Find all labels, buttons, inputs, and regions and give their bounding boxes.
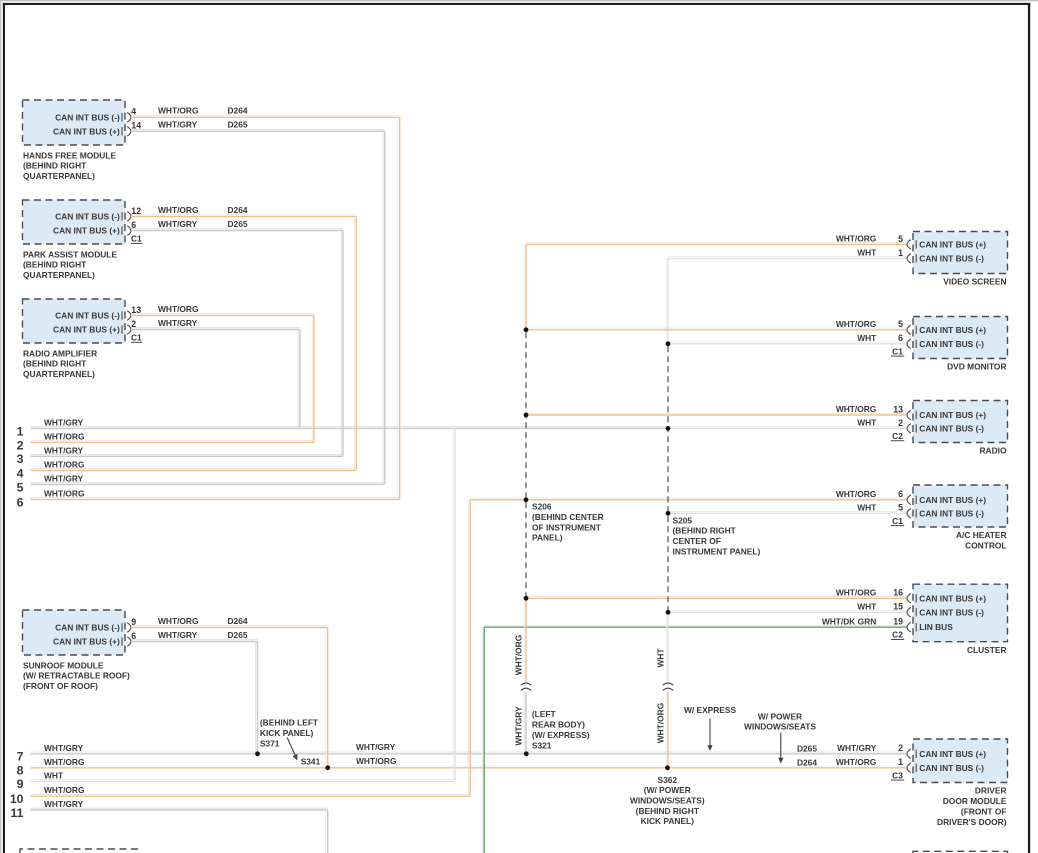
- partial module box bottom-right (cut off): [913, 851, 1008, 853]
- WHT/ORG vertical from a/c wire down to wire 10: [468, 500, 470, 796]
- svg-text:S371: S371: [260, 739, 280, 749]
- svg-text:CAN INT BUS (-): CAN INT BUS (-): [55, 211, 120, 221]
- a/c heater control WHT wire from splice S205: [668, 512, 907, 514]
- junction radio WHT/ORG tap: [524, 413, 529, 418]
- svg-text:WHT/ORG: WHT/ORG: [44, 459, 84, 469]
- svg-text:6: 6: [17, 495, 24, 509]
- svg-text:11: 11: [11, 806, 24, 820]
- video screen WHT wire: [668, 257, 907, 259]
- svg-text:WHT/ORG: WHT/ORG: [356, 756, 396, 766]
- hands free D264 vertical down to wire 6: [398, 117, 400, 499]
- svg-text:1: 1: [17, 424, 24, 438]
- junction cluster WHT tap: [666, 610, 671, 615]
- svg-text:CAN INT BUS (-): CAN INT BUS (-): [919, 339, 984, 349]
- svg-text:WHT/GRY: WHT/GRY: [837, 743, 877, 753]
- bus WHT segment cluster-to-connector: [666, 612, 668, 681]
- dvd monitor WHT wire: [668, 342, 907, 344]
- svg-text:C3: C3: [892, 770, 903, 780]
- svg-text:(W/ POWER: (W/ POWER: [644, 785, 691, 795]
- svg-text:CAN INT BUS (+): CAN INT BUS (+): [919, 325, 986, 335]
- svg-text:(BEHIND RIGHT: (BEHIND RIGHT: [23, 260, 87, 270]
- svg-text:(BEHIND RIGHT: (BEHIND RIGHT: [636, 806, 700, 816]
- svg-text:WHT/ORG: WHT/ORG: [836, 234, 876, 244]
- a/c heater control WHT/ORG wire through splice S206: [470, 498, 906, 500]
- svg-text:(LEFT: (LEFT: [532, 709, 557, 719]
- hands free D265 WHT/GRY wire horizontal: [131, 130, 385, 132]
- page frame black border right: [1028, 3, 1030, 853]
- svg-text:CAN INT BUS (-): CAN INT BUS (-): [919, 607, 984, 617]
- sunroof D264 WHT/ORG wire horizontal: [131, 626, 328, 628]
- dvd monitor WHT/ORG wire: [526, 328, 907, 330]
- page frame black border top: [3, 3, 1030, 5]
- in-line connector on right bus: [663, 683, 673, 685]
- svg-text:S362: S362: [658, 775, 678, 785]
- hands free module U1 pin connector arcs: [127, 113, 131, 123]
- svg-text:WHT/ORG: WHT/ORG: [158, 106, 198, 116]
- svg-text:C1: C1: [892, 516, 903, 526]
- svg-text:W/ POWER: W/ POWER: [758, 711, 802, 721]
- sunroof D264 vertical down to splice S341: [326, 628, 328, 767]
- svg-text:CAN INT BUS (+): CAN INT BUS (+): [919, 593, 986, 603]
- twisted-pair bus dashed line (S205 branch): [667, 346, 669, 610]
- svg-text:WHT/ORG: WHT/ORG: [836, 404, 876, 414]
- splice S206: [524, 497, 529, 502]
- a/c heater control module U8: [913, 485, 1008, 527]
- svg-text:REAR BODY): REAR BODY): [532, 720, 585, 730]
- svg-text:PANEL): PANEL): [532, 533, 563, 543]
- radio amplifier WHT/GRY wire horizontal: [131, 328, 300, 330]
- splice S321 on wire 7: [524, 751, 529, 756]
- svg-text:WHT/ORG: WHT/ORG: [44, 757, 84, 767]
- svg-text:PARK ASSIST MODULE: PARK ASSIST MODULE: [23, 249, 117, 259]
- svg-text:DOOR MODULE: DOOR MODULE: [943, 796, 1007, 806]
- svg-text:RADIO: RADIO: [980, 446, 1007, 456]
- svg-text:D265: D265: [228, 120, 248, 130]
- svg-text:(BEHIND RIGHT: (BEHIND RIGHT: [23, 359, 87, 369]
- wire 8 WHT/ORG off-page stub: [31, 766, 907, 768]
- hands free D265 vertical down to wire 5: [383, 131, 385, 483]
- a/c heater control module U8 pin connector arc: [907, 495, 911, 505]
- radio amplifier WHT/GRY vertical down to wire 1: [298, 330, 300, 428]
- svg-text:WHT/GRY: WHT/GRY: [44, 799, 84, 809]
- svg-text:WHT/ORG: WHT/ORG: [158, 616, 198, 626]
- radio amplifier WHT/ORG vertical down to wire 2: [312, 316, 314, 442]
- svg-text:4: 4: [17, 466, 24, 480]
- svg-text:CAN INT BUS (+): CAN INT BUS (+): [919, 495, 986, 505]
- svg-text:HANDS FREE MODULE: HANDS FREE MODULE: [23, 150, 116, 160]
- svg-text:9: 9: [17, 777, 24, 791]
- park assist module U2: [23, 200, 126, 244]
- svg-text:KICK PANEL): KICK PANEL): [641, 816, 695, 826]
- svg-text:C2: C2: [892, 431, 903, 441]
- park assist D264 WHT/ORG wire horizontal: [131, 215, 356, 217]
- a/c heater control module U8 pin connector arc: [907, 509, 911, 519]
- junction dvd WHT/ORG tap: [524, 327, 529, 332]
- svg-text:WHT/GRY: WHT/GRY: [158, 219, 198, 229]
- svg-text:S321: S321: [532, 740, 552, 750]
- svg-text:DRIVER: DRIVER: [975, 786, 1007, 796]
- svg-text:S206: S206: [532, 502, 552, 512]
- svg-text:WHT: WHT: [857, 503, 877, 513]
- svg-text:5: 5: [17, 480, 24, 494]
- svg-text:CENTER OF: CENTER OF: [673, 536, 721, 546]
- svg-text:RADIO AMPLIFIER: RADIO AMPLIFIER: [23, 348, 97, 358]
- video screen module U5 pin connector arc: [907, 254, 911, 264]
- driver door module U10: [913, 739, 1008, 783]
- splice S341 on wire 8: [325, 765, 330, 770]
- svg-text:WHT: WHT: [857, 248, 877, 258]
- wire 1 WHT/GRY off-page stub: [31, 427, 668, 429]
- svg-text:D264: D264: [228, 106, 248, 116]
- svg-text:10: 10: [10, 792, 24, 806]
- WHT vertical connecting wire 1 down to wire 9: [453, 428, 455, 780]
- svg-text:DVD MONITOR: DVD MONITOR: [947, 362, 1006, 372]
- svg-text:WHT/ORG: WHT/ORG: [836, 319, 876, 329]
- radio WHT/ORG wire: [526, 413, 907, 415]
- svg-text:(FRONT OF: (FRONT OF: [961, 807, 1007, 817]
- svg-text:CAN INT BUS (+): CAN INT BUS (+): [919, 239, 986, 249]
- svg-text:QUARTERPANEL): QUARTERPANEL): [23, 171, 95, 181]
- svg-text:WHT/DK GRN: WHT/DK GRN: [822, 616, 876, 626]
- dvd monitor module U6 pin connector arc: [907, 339, 911, 349]
- svg-text:WHT: WHT: [857, 333, 877, 343]
- svg-text:CAN INT BUS (+): CAN INT BUS (+): [919, 410, 986, 420]
- svg-text:WHT/ORG: WHT/ORG: [44, 489, 84, 499]
- radio module U7 pin connector arc: [907, 424, 911, 434]
- svg-text:(FRONT OF ROOF): (FRONT OF ROOF): [23, 681, 98, 691]
- park assist D265 WHT/GRY wire horizontal: [131, 229, 343, 231]
- svg-text:WHT/ORG: WHT/ORG: [656, 703, 666, 743]
- svg-text:QUARTERPANEL): QUARTERPANEL): [23, 369, 95, 379]
- bus WHT/ORG segment cluster-to-connector: [524, 598, 526, 681]
- sunroof D265 vertical down to splice S371: [256, 642, 258, 753]
- page frame black border left: [3, 3, 5, 853]
- video screen module U5: [913, 232, 1008, 274]
- park assist module U2 pin connector arcs: [127, 212, 131, 222]
- svg-text:2: 2: [17, 438, 24, 452]
- svg-text:C1: C1: [892, 346, 903, 356]
- radio module U7: [913, 401, 1008, 443]
- cluster WHT wire: [668, 611, 907, 613]
- bus WHT/ORG segment connector-to-S362: [666, 692, 668, 767]
- svg-text:WHT/ORG: WHT/ORG: [158, 205, 198, 215]
- wire 9 WHT off-page stub: [31, 780, 456, 782]
- svg-text:WINDOWS/SEATS): WINDOWS/SEATS): [630, 796, 705, 806]
- bus vertical orange segment video-to-dvd: [524, 244, 526, 329]
- svg-text:WHT/ORG: WHT/ORG: [44, 785, 84, 795]
- svg-text:WHT/ORG: WHT/ORG: [44, 431, 84, 441]
- svg-text:CAN INT BUS (+): CAN INT BUS (+): [53, 126, 120, 136]
- svg-text:WHT/GRY: WHT/GRY: [514, 706, 524, 746]
- arrow W/ EXPRESS pointing to D265 wire: [709, 719, 711, 746]
- dvd monitor module U6 pin connector arc: [907, 325, 911, 335]
- svg-text:A/C HEATER: A/C HEATER: [956, 530, 1007, 540]
- svg-text:WHT: WHT: [857, 418, 877, 428]
- bus WHT/GRY segment connector-to-S321: [524, 692, 526, 753]
- svg-text:INSTRUMENT PANEL): INSTRUMENT PANEL): [673, 547, 761, 557]
- svg-text:C1: C1: [131, 333, 142, 343]
- cluster WHT/ORG wire: [526, 597, 907, 599]
- junction cluster WHT/ORG tap: [524, 596, 529, 601]
- svg-text:KICK PANEL): KICK PANEL): [260, 728, 314, 738]
- svg-text:(BEHIND LEFT: (BEHIND LEFT: [260, 718, 319, 728]
- page frame outer gray edge top: [0, 0, 1038, 1]
- park assist D265 vertical down to wire 3: [341, 231, 343, 456]
- svg-text:(W/ EXPRESS): (W/ EXPRESS): [532, 730, 590, 740]
- svg-text:WHT/ORG: WHT/ORG: [514, 635, 524, 675]
- wire 7 WHT/GRY off-page stub: [31, 752, 907, 754]
- svg-text:7: 7: [17, 750, 24, 764]
- svg-text:D265: D265: [228, 219, 248, 229]
- svg-text:D265: D265: [228, 630, 248, 640]
- svg-text:D264: D264: [228, 205, 248, 215]
- sunroof module U4: [23, 610, 126, 655]
- svg-text:CAN INT BUS (+): CAN INT BUS (+): [53, 226, 120, 236]
- park assist D264 vertical down to wire 4: [355, 216, 357, 469]
- svg-text:DRIVER'S DOOR): DRIVER'S DOOR): [937, 817, 1007, 827]
- svg-text:OF INSTRUMENT: OF INSTRUMENT: [532, 522, 602, 532]
- svg-text:WHT/ORG: WHT/ORG: [158, 304, 198, 314]
- svg-text:WHT/GRY: WHT/GRY: [44, 743, 84, 753]
- svg-text:(BEHIND RIGHT: (BEHIND RIGHT: [23, 161, 87, 171]
- sunroof D265 WHT/GRY wire horizontal: [131, 640, 258, 642]
- svg-text:CAN INT BUS (+): CAN INT BUS (+): [919, 749, 986, 759]
- svg-text:WHT/GRY: WHT/GRY: [158, 630, 198, 640]
- junction dvd WHT tap: [666, 341, 671, 346]
- svg-text:WHT/GRY: WHT/GRY: [158, 318, 198, 328]
- svg-text:WHT/GRY: WHT/GRY: [44, 473, 84, 483]
- dvd monitor module U6: [913, 317, 1008, 359]
- LIN BUS WHT/DK GRN vertical down off-page: [482, 627, 484, 853]
- svg-text:WHT/GRY: WHT/GRY: [356, 742, 396, 752]
- radio amplifier WHT/ORG wire horizontal: [131, 314, 314, 316]
- splice S371 on wire 7: [255, 751, 260, 756]
- svg-text:WHT/ORG: WHT/ORG: [836, 757, 876, 767]
- video screen WHT/ORG wire: [526, 243, 907, 245]
- radio module U7 pin connector arc: [907, 410, 911, 420]
- svg-text:LIN BUS: LIN BUS: [919, 622, 953, 632]
- svg-text:WHT/ORG: WHT/ORG: [836, 588, 876, 598]
- svg-text:C1: C1: [131, 234, 142, 244]
- wire 10 WHT/ORG off-page stub: [31, 794, 471, 796]
- radio amplifier U3 pin connector arcs: [127, 311, 131, 321]
- svg-text:WHT: WHT: [44, 770, 64, 780]
- svg-text:CAN INT BUS (+): CAN INT BUS (+): [53, 637, 120, 647]
- sunroof module U4 pin connector arcs: [127, 623, 131, 633]
- svg-text:WHT/GRY: WHT/GRY: [44, 417, 84, 427]
- cluster module U9 pin connector arc: [907, 622, 911, 632]
- arrow W/ POWER WINDOWS/SEATS pointing to D264 wire: [780, 733, 782, 759]
- wire 5 WHT/GRY off-page stub: [31, 483, 385, 485]
- radio amplifier U3: [23, 299, 126, 343]
- driver door module U10 pin connector arc: [907, 749, 911, 759]
- svg-text:CAN INT BUS (-): CAN INT BUS (-): [55, 623, 120, 633]
- driver door module U10 pin connector arc: [907, 763, 911, 773]
- svg-text:D264: D264: [228, 616, 248, 626]
- svg-text:CAN INT BUS (+): CAN INT BUS (+): [53, 325, 120, 335]
- svg-text:WHT: WHT: [857, 602, 877, 612]
- svg-text:8: 8: [17, 764, 24, 778]
- twisted-pair bus dashed line (S206 branch): [525, 332, 527, 596]
- svg-text:CAN INT BUS (-): CAN INT BUS (-): [919, 423, 984, 433]
- svg-text:CAN INT BUS (-): CAN INT BUS (-): [919, 253, 984, 263]
- page frame outer gray edge left: [0, 0, 1, 853]
- partial module box bottom-left (cut off): [20, 849, 138, 853]
- arrow from S371 label to splice S341: [287, 738, 295, 756]
- svg-text:(BEHIND CENTER: (BEHIND CENTER: [532, 512, 604, 522]
- junction radio WHT / wire 1: [666, 426, 671, 431]
- svg-text:QUARTERPANEL): QUARTERPANEL): [23, 270, 95, 280]
- svg-text:CAN INT BUS (-): CAN INT BUS (-): [919, 763, 984, 773]
- svg-text:CLUSTER: CLUSTER: [967, 645, 1007, 655]
- svg-text:CAN INT BUS (-): CAN INT BUS (-): [55, 112, 120, 122]
- splice S205: [666, 511, 671, 516]
- wire 4 WHT/ORG off-page stub: [31, 469, 357, 471]
- hands free module U1: [23, 100, 126, 145]
- svg-text:VIDEO SCREEN: VIDEO SCREEN: [943, 277, 1006, 287]
- svg-text:WHT: WHT: [656, 648, 666, 668]
- svg-text:3: 3: [17, 452, 24, 466]
- cluster module U9 pin connector arc: [907, 594, 911, 604]
- svg-text:WINDOWS/SEATS: WINDOWS/SEATS: [744, 722, 816, 732]
- wire 2 WHT/ORG off-page stub: [31, 441, 315, 443]
- svg-text:CAN INT BUS (-): CAN INT BUS (-): [919, 508, 984, 518]
- svg-text:C2: C2: [892, 630, 903, 640]
- svg-text:WHT/GRY: WHT/GRY: [158, 120, 198, 130]
- svg-text:(BEHIND RIGHT: (BEHIND RIGHT: [673, 526, 737, 536]
- svg-text:W/ EXPRESS: W/ EXPRESS: [684, 705, 737, 715]
- cluster module U9: [913, 584, 1008, 642]
- svg-text:(W/ RETRACTABLE ROOF): (W/ RETRACTABLE ROOF): [23, 671, 130, 681]
- wire 11 WHT/GRY off-page stub: [31, 808, 328, 810]
- splice S362 on wire 8: [665, 765, 670, 770]
- svg-text:S341: S341: [301, 757, 321, 767]
- svg-text:SUNROOF MODULE: SUNROOF MODULE: [23, 660, 104, 670]
- hands free D264 WHT/ORG wire horizontal: [131, 116, 400, 118]
- in-line connector on left bus: [521, 683, 531, 685]
- wire 11 WHT/GRY vertical down off-page: [326, 810, 328, 853]
- cluster LIN BUS WHT/DK GRN wire: [484, 625, 906, 627]
- svg-text:WHT/ORG: WHT/ORG: [836, 489, 876, 499]
- svg-text:WHT/GRY: WHT/GRY: [44, 445, 84, 455]
- wire 6 WHT/ORG off-page stub: [31, 498, 400, 500]
- svg-text:CAN INT BUS (-): CAN INT BUS (-): [55, 311, 120, 321]
- bus vertical white segment video-to-dvd: [666, 258, 668, 343]
- svg-text:CONTROL: CONTROL: [965, 541, 1006, 551]
- video screen module U5 pin connector arc: [907, 240, 911, 250]
- wire 3 WHT/GRY off-page stub: [31, 455, 344, 457]
- radio WHT wire from splice: [668, 427, 907, 429]
- svg-text:S205: S205: [673, 515, 693, 525]
- cluster module U9 pin connector arc: [907, 608, 911, 618]
